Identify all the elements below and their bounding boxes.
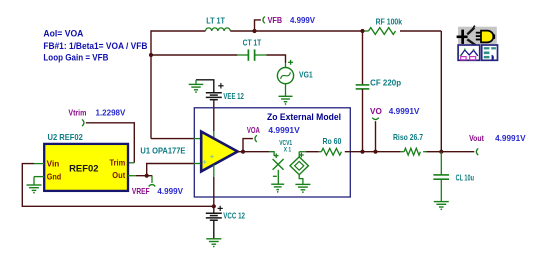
svg-text:CT 1T: CT 1T [243, 37, 262, 47]
wire: CT horizontal from left column [151, 54, 237, 56]
wire: VCC battery to ground [213, 220, 215, 239]
icon: data list [482, 45, 498, 61]
box: Zo External Model [194, 108, 350, 197]
wire: top horizontal feedback left segment [151, 30, 206, 32]
VCV1 control input (X) [269, 138, 292, 184]
op-amp U1 OPA177E [140, 132, 237, 172]
junction left column / CT [149, 53, 153, 57]
wire: inverting input [151, 138, 194, 140]
node VOA marker and stub [243, 135, 257, 152]
svg-text:VG1: VG1 [299, 70, 313, 80]
wire: VFB junction down to CF [362, 31, 364, 85]
wire: output to VCV1 control [243, 151, 269, 153]
pin stub Out [128, 175, 136, 177]
svg-text:CF 220p: CF 220p [370, 77, 401, 87]
svg-text:4.9991V: 4.9991V [268, 125, 300, 135]
battery VCC 12 [206, 206, 245, 221]
svg-text:Ro 60: Ro 60 [323, 136, 342, 146]
svg-text:U1 OPA177E: U1 OPA177E [140, 146, 185, 156]
svg-text:REF02: REF02 [69, 164, 99, 174]
wire: top horizontal feedback mid segment [230, 30, 362, 32]
svg-text:Zo External Model: Zo External Model [267, 112, 341, 122]
node Vout marker [476, 148, 478, 155]
svg-text:VFB: VFB [268, 15, 283, 25]
svg-text:4.9991V: 4.9991V [389, 106, 420, 116]
inductor LT [206, 15, 231, 31]
svg-text:VREF: VREF [132, 186, 150, 196]
svg-text:VO: VO [370, 106, 382, 116]
svg-text:Out: Out [112, 171, 125, 180]
wire: ground to VEE battery [196, 80, 214, 93]
node VFB marker and stub [255, 17, 265, 32]
junction op-amp output [241, 150, 245, 154]
pin stub Vin [34, 163, 44, 165]
junction at VFB stub [252, 29, 256, 33]
wire: Riso to Vout column [427, 151, 442, 153]
junction VCC [212, 204, 216, 208]
wire: Ro to CF junction [345, 151, 363, 153]
svg-text:U2 REF02: U2 REF02 [48, 132, 84, 142]
svg-text:Riso 26.7: Riso 26.7 [393, 132, 423, 142]
svg-text:VCC 12: VCC 12 [223, 210, 245, 220]
svg-text:4.999V: 4.999V [290, 15, 315, 25]
wire: Out to op-amp non-inverting input [136, 175, 152, 177]
svg-text:4.9991V: 4.9991V [495, 133, 526, 143]
wire: op-amp V- pin down to VCC [213, 165, 215, 178]
wire: VEE to op-amp V+ pin [213, 100, 215, 131]
wire: op-amp output [238, 151, 243, 153]
wire: Vin loop to VCC junction [22, 164, 214, 207]
wire: CF down to output row [362, 89, 364, 152]
junction RF left [360, 29, 364, 33]
ground below VCV1 control [271, 183, 284, 185]
svg-text:RF 100k: RF 100k [376, 17, 403, 27]
wire: VO junction to Riso [363, 151, 401, 153]
node VREF marker [149, 176, 156, 187]
capacitor CF 220p [356, 77, 401, 89]
icon: waveform chart [458, 45, 480, 60]
wire: VCV1 to Ro [299, 151, 306, 153]
ground below VG1 [279, 95, 293, 97]
ground at VEE battery [189, 83, 204, 85]
junction VO stub [373, 150, 377, 154]
wire: right column down [440, 31, 442, 152]
resistor Riso 26.7 [393, 132, 427, 155]
pin stub Gnd [34, 176, 44, 178]
battery VEE 12 [206, 83, 244, 101]
wire: left column vertical [150, 30, 152, 138]
svg-text:Vtrim: Vtrim [68, 107, 86, 117]
wire: Vtrim to Trim pin [86, 123, 135, 163]
icon: disconnected plug [457, 26, 497, 46]
node VO marker and stub [372, 118, 379, 152]
svg-text:Vin: Vin [47, 159, 60, 168]
svg-text:X 1: X 1 [284, 147, 292, 154]
ground at REF02 Gnd [27, 184, 42, 186]
svg-text:LT 1T: LT 1T [206, 15, 225, 25]
svg-text:VOA: VOA [247, 125, 260, 135]
wire: RF to right column [400, 30, 441, 32]
capacitor CT 1T [237, 37, 266, 60]
svg-text:VEE 12: VEE 12 [223, 91, 244, 101]
svg-text:Loop Gain = VFB: Loop Gain = VFB [43, 52, 108, 62]
ground below VCV1 source [295, 183, 310, 185]
svg-text:Vout: Vout [469, 133, 484, 143]
wire: to Vout node [441, 151, 474, 153]
capacitor CL 10u [433, 152, 474, 202]
junction VREF [145, 174, 149, 178]
wire: CT to VG1 [267, 55, 286, 63]
svg-text:1.2298V: 1.2298V [96, 107, 126, 117]
VCV1 dependent source diamond [290, 152, 308, 184]
node Vtrim marker [82, 119, 84, 126]
junction Vout column [439, 150, 443, 154]
svg-text:Trim: Trim [110, 158, 126, 167]
ground below VCC [206, 238, 221, 240]
source VG1 [277, 60, 313, 96]
junction CF / output row [360, 150, 364, 154]
resistor Ro 60 [319, 136, 342, 155]
svg-text:Aol= VOA: Aol= VOA [43, 29, 83, 39]
svg-text:FB#1: 1/Beta1= VOA / VFB: FB#1: 1/Beta1= VOA / VFB [43, 41, 147, 51]
svg-text:Gnd: Gnd [47, 172, 62, 181]
ground below CL [434, 201, 449, 203]
svg-text:CL 10u: CL 10u [456, 173, 474, 183]
resistor RF 100k [363, 17, 403, 35]
svg-text:4.999V: 4.999V [157, 186, 183, 196]
IC U2 REF02 [44, 132, 128, 191]
